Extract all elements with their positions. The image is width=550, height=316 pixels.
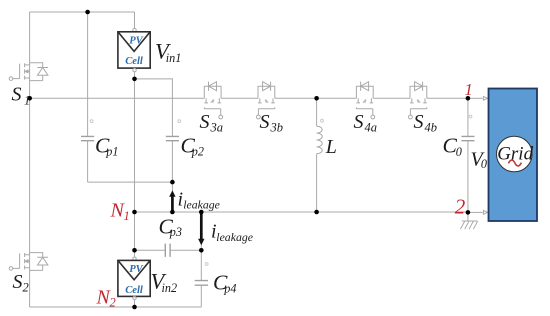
svg-text:p2: p2 [191,144,204,158]
wire PV2 bottom to bottom rail [134,300,136,307]
node PV2 bottom [132,305,137,310]
leakage up arrow [169,190,175,211]
node S1 source [27,96,32,101]
wire main rail segment S4a to S4b [373,97,410,99]
capacitor Cp2 plates [166,136,179,140]
transistor S3a [204,82,222,119]
inductor L coil [317,126,323,154]
svg-text:2: 2 [455,194,466,218]
grid circle [497,136,533,172]
svg-text:S: S [200,111,210,133]
svg-text:S: S [13,271,23,293]
svg-text:2: 2 [110,296,116,310]
svg-text:in1: in1 [166,51,182,65]
wire Cp4 bottom [200,286,202,307]
wire Cp3 right [171,249,202,251]
faint terminal circles [90,115,472,265]
svg-text:S: S [414,111,424,133]
svg-text:in2: in2 [162,281,178,295]
svg-text:3a: 3a [210,121,224,135]
svg-text:Cell: Cell [125,285,143,296]
transistor S4b [409,82,427,119]
wire Cp1-Cp2 bottom joint [88,181,173,183]
wire top rail [30,11,135,13]
svg-text:1: 1 [124,209,130,223]
wire PV1 bottom node down to N1 [134,72,136,212]
wire N1 down to PV2 [134,212,136,257]
wire PV1 top drop [134,12,136,28]
transistor S2 [9,253,48,271]
wire left rail (top rail corner down to bottom rail) [29,12,31,307]
capacitor C0 plates [461,136,474,140]
node top rail junction [85,10,90,15]
node Cp3 left [132,248,137,253]
svg-text:1: 1 [465,80,473,99]
svg-text:S: S [260,111,270,133]
svg-text:p4: p4 [223,281,236,295]
grid box [489,89,538,222]
wire Cp1 bottom to joint wire [87,141,89,182]
capacitor Cp4 plates [195,281,208,286]
node L top [314,96,319,101]
svg-text:S: S [12,83,22,105]
wire L bottom [316,154,318,212]
leakage down arrow [198,214,204,246]
node Cp2 bottom joint [170,180,175,185]
node L bottom [314,210,319,215]
svg-text:p3: p3 [169,225,182,239]
node 2 junction [466,210,471,215]
transistor S3b [257,82,275,119]
svg-text:PV: PV [129,264,143,275]
svg-text:p1: p1 [105,144,118,158]
svg-text:0: 0 [481,157,487,171]
wire main rail segment S3a to S3b [221,97,258,99]
svg-text:4a: 4a [365,121,378,135]
wire Cp1 vertical from top rail [87,12,89,136]
wire leakage drop N1 rail to Cp3 wire [200,212,202,250]
wire node 1 to grid box [468,97,483,99]
svg-text:Cell: Cell [125,56,143,67]
svg-text:Grid: Grid [497,144,533,165]
node 1 junction [466,96,471,101]
capacitor Cp3 plates [165,244,170,257]
svg-text:L: L [325,136,337,158]
svg-text:PV: PV [129,35,143,46]
grid tilde [508,160,521,166]
svg-text:0: 0 [456,145,462,159]
wire Cp2 bottom down to N1 rail [171,141,173,212]
wire C0 bottom [467,141,469,213]
wire main rail segment S3b to S4a [275,97,357,99]
PV cell box 1 (Vin1) [118,28,150,71]
node PV1 bottom [132,77,137,82]
wire Cp4 top [200,250,202,280]
connector triangle into grid (top) [483,96,487,100]
connector triangle into grid (bottom) [483,211,487,215]
node Cp3 right [199,248,204,253]
wire L top [316,98,318,126]
PV cell box 2 (Vin2) [118,257,150,300]
svg-text:4b: 4b [425,121,438,135]
transistor S4a [356,82,374,119]
svg-text:1: 1 [24,93,30,107]
node N1 rail x172 [170,210,175,215]
svg-text:2: 2 [23,280,29,294]
wire main rail segment S1 to S3a [30,97,205,99]
node N1 [132,210,137,215]
wire N1 rail [135,211,468,213]
wire PV1 bottom to Cp2 top [135,79,173,136]
wire bottom rail [30,306,202,308]
svg-text:3b: 3b [270,121,284,135]
node N1 rail x201 [199,210,204,215]
ground symbol [460,212,477,229]
wire main rail segment S4b to node 1 [427,97,468,99]
svg-text:S: S [354,111,364,133]
svg-text:leakage: leakage [216,230,253,244]
svg-text:leakage: leakage [183,198,220,212]
transistor S1 [9,63,48,81]
wire C0 top [467,98,469,136]
wire Cp3 left [135,249,165,251]
wire node 2 to grid box [468,211,483,213]
capacitor Cp1 plates [81,136,94,140]
